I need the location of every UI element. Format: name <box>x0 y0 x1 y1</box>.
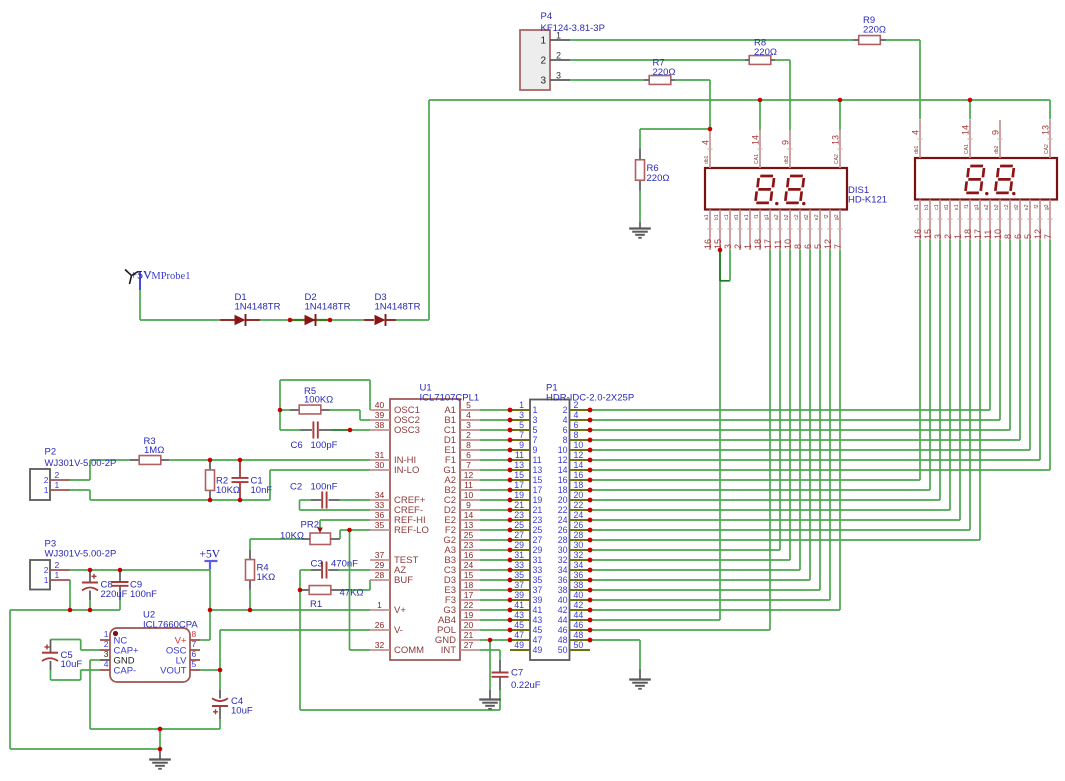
svg-text:HDR-IDC-2.0-2X25P: HDR-IDC-2.0-2X25P <box>546 393 634 404</box>
svg-text:29: 29 <box>514 540 524 550</box>
svg-text:20: 20 <box>574 490 584 500</box>
svg-text:14: 14 <box>961 125 971 135</box>
svg-text:c2: c2 <box>1004 204 1010 210</box>
svg-text:7: 7 <box>533 435 538 445</box>
svg-text:6: 6 <box>192 649 197 659</box>
svg-text:40: 40 <box>375 400 385 410</box>
svg-text:32: 32 <box>375 640 385 650</box>
svg-text:37: 37 <box>533 585 543 595</box>
svg-text:9: 9 <box>466 500 471 510</box>
svg-text:100nF: 100nF <box>130 589 157 600</box>
svg-text:a1: a1 <box>704 214 710 220</box>
svg-text:10uF: 10uF <box>231 706 253 717</box>
svg-text:16: 16 <box>574 470 584 480</box>
svg-text:49: 49 <box>514 640 524 650</box>
svg-text:10nF: 10nF <box>251 485 273 496</box>
svg-text:10uF: 10uF <box>61 659 83 670</box>
svg-text:43: 43 <box>533 615 543 625</box>
svg-text:g1: g1 <box>764 214 770 220</box>
svg-text:ICL7107CPL1: ICL7107CPL1 <box>420 393 480 404</box>
svg-text:27: 27 <box>533 535 543 545</box>
svg-text:1MΩ: 1MΩ <box>144 445 164 456</box>
svg-text:18: 18 <box>574 480 584 490</box>
svg-text:6: 6 <box>563 425 568 435</box>
svg-text:12: 12 <box>823 239 833 249</box>
svg-text:17: 17 <box>973 229 983 239</box>
svg-text:COMM: COMM <box>394 645 424 656</box>
svg-text:47: 47 <box>514 630 524 640</box>
svg-text:23: 23 <box>514 510 524 520</box>
svg-text:OSC3: OSC3 <box>394 425 420 436</box>
svg-text:21: 21 <box>533 505 543 515</box>
svg-text:4: 4 <box>104 659 109 669</box>
svg-text:21: 21 <box>464 630 474 640</box>
svg-text:23: 23 <box>464 540 474 550</box>
svg-text:10KΩ: 10KΩ <box>280 531 304 542</box>
svg-text:46: 46 <box>574 620 584 630</box>
svg-text:43: 43 <box>514 610 524 620</box>
svg-text:8: 8 <box>563 435 568 445</box>
svg-text:P2: P2 <box>45 447 57 458</box>
svg-text:44: 44 <box>574 610 584 620</box>
svg-text:38: 38 <box>375 420 385 430</box>
svg-text:12: 12 <box>558 455 568 465</box>
svg-text:47KΩ: 47KΩ <box>340 588 364 599</box>
svg-text:39: 39 <box>375 410 385 420</box>
svg-text:39: 39 <box>514 590 524 600</box>
svg-text:7: 7 <box>1043 234 1053 239</box>
svg-text:22: 22 <box>558 505 568 515</box>
svg-text:15: 15 <box>514 470 524 480</box>
svg-text:5: 5 <box>813 244 823 249</box>
svg-text:40: 40 <box>574 590 584 600</box>
svg-text:27: 27 <box>464 640 474 650</box>
svg-text:39: 39 <box>533 595 543 605</box>
svg-text:2: 2 <box>540 56 546 67</box>
svg-text:V+: V+ <box>394 605 406 616</box>
svg-text:3: 3 <box>556 71 561 81</box>
svg-text:22: 22 <box>464 600 474 610</box>
svg-text:7: 7 <box>519 430 524 440</box>
svg-text:24: 24 <box>558 515 568 525</box>
svg-text:1N4148TR: 1N4148TR <box>235 302 281 313</box>
svg-text:7: 7 <box>466 460 471 470</box>
svg-text:db2: db2 <box>994 145 1000 154</box>
svg-text:5: 5 <box>533 425 538 435</box>
svg-text:2: 2 <box>44 565 49 575</box>
svg-text:33: 33 <box>375 500 385 510</box>
svg-text:3: 3 <box>533 415 538 425</box>
svg-text:HD-K121: HD-K121 <box>848 195 887 206</box>
svg-text:WJ301V-5.00-2P: WJ301V-5.00-2P <box>45 549 117 560</box>
svg-text:KF124-3.81-3P: KF124-3.81-3P <box>541 23 605 34</box>
svg-text:10: 10 <box>993 229 1003 239</box>
svg-text:2: 2 <box>466 430 471 440</box>
svg-text:13: 13 <box>831 135 841 145</box>
svg-text:e2: e2 <box>814 214 820 220</box>
svg-text:g1: g1 <box>974 204 980 210</box>
svg-text:44: 44 <box>558 615 568 625</box>
svg-text:10: 10 <box>464 490 474 500</box>
svg-text:34: 34 <box>558 565 568 575</box>
svg-text:15: 15 <box>464 570 474 580</box>
svg-text:13: 13 <box>514 460 524 470</box>
svg-text:14: 14 <box>574 460 584 470</box>
svg-text:25: 25 <box>514 520 524 530</box>
svg-text:17: 17 <box>533 485 543 495</box>
svg-text:36: 36 <box>574 570 584 580</box>
svg-text:d1: d1 <box>944 204 950 210</box>
svg-text:220Ω: 220Ω <box>863 25 886 36</box>
svg-text:32: 32 <box>574 550 584 560</box>
svg-text:f2: f2 <box>824 214 830 218</box>
svg-text:b2: b2 <box>994 204 1000 210</box>
svg-text:db1: db1 <box>704 155 710 164</box>
svg-text:8: 8 <box>466 440 471 450</box>
svg-text:5: 5 <box>519 420 524 430</box>
svg-text:1: 1 <box>533 405 538 415</box>
svg-text:16: 16 <box>464 550 474 560</box>
svg-text:25: 25 <box>533 525 543 535</box>
svg-text:CA1: CA1 <box>964 144 970 154</box>
svg-text:50: 50 <box>574 640 584 650</box>
svg-text:19: 19 <box>514 490 524 500</box>
svg-text:220Ω: 220Ω <box>754 47 777 58</box>
svg-text:25: 25 <box>464 530 474 540</box>
svg-text:17: 17 <box>514 480 524 490</box>
svg-text:d2: d2 <box>804 214 810 220</box>
svg-text:36: 36 <box>375 510 385 520</box>
svg-text:40: 40 <box>558 595 568 605</box>
svg-text:33: 33 <box>533 565 543 575</box>
svg-text:29: 29 <box>533 545 543 555</box>
svg-text:1: 1 <box>44 485 49 495</box>
svg-text:23: 23 <box>533 515 543 525</box>
svg-text:41: 41 <box>533 605 543 615</box>
svg-text:2: 2 <box>943 234 953 239</box>
svg-text:4: 4 <box>466 410 471 420</box>
svg-text:3: 3 <box>519 410 524 420</box>
svg-text:26: 26 <box>574 520 584 530</box>
svg-text:1N4148TR: 1N4148TR <box>305 302 351 313</box>
svg-text:1: 1 <box>44 575 49 585</box>
svg-text:100nF: 100nF <box>311 482 338 493</box>
svg-text:16: 16 <box>558 475 568 485</box>
svg-text:15: 15 <box>923 229 933 239</box>
svg-text:10: 10 <box>574 440 584 450</box>
svg-text:3: 3 <box>933 234 943 239</box>
svg-text:24: 24 <box>464 560 474 570</box>
svg-text:27: 27 <box>514 530 524 540</box>
svg-text:e1: e1 <box>744 214 750 220</box>
svg-text:9: 9 <box>781 140 791 145</box>
svg-text:0.22uF: 0.22uF <box>511 680 541 691</box>
svg-text:17: 17 <box>763 239 773 249</box>
svg-text:6: 6 <box>574 420 579 430</box>
svg-text:100pF: 100pF <box>311 440 338 451</box>
svg-text:e1: e1 <box>954 204 960 210</box>
svg-text:8: 8 <box>793 244 803 249</box>
svg-text:5: 5 <box>192 659 197 669</box>
svg-text:30: 30 <box>574 540 584 550</box>
svg-text:1N4148TR: 1N4148TR <box>375 302 421 313</box>
svg-text:b1: b1 <box>714 214 720 220</box>
svg-text:g2: g2 <box>834 214 840 220</box>
svg-text:10: 10 <box>783 239 793 249</box>
svg-text:11: 11 <box>515 450 524 460</box>
svg-text:30: 30 <box>558 545 568 555</box>
svg-text:C2: C2 <box>290 482 302 493</box>
svg-text:35: 35 <box>375 520 385 530</box>
svg-text:d2: d2 <box>1014 204 1020 210</box>
svg-text:c2: c2 <box>794 214 800 220</box>
svg-text:a1: a1 <box>914 204 920 210</box>
svg-text:18: 18 <box>753 239 763 249</box>
svg-text:3: 3 <box>540 76 546 87</box>
svg-text:INT: INT <box>441 645 457 656</box>
svg-text:9: 9 <box>533 445 538 455</box>
svg-text:f2: f2 <box>1034 204 1040 208</box>
svg-text:b2: b2 <box>784 214 790 220</box>
svg-text:9: 9 <box>991 130 1001 135</box>
svg-text:PR2: PR2 <box>301 520 319 531</box>
svg-text:R1: R1 <box>310 599 322 610</box>
svg-text:31: 31 <box>533 555 543 565</box>
svg-text:4: 4 <box>563 415 568 425</box>
svg-text:9: 9 <box>519 440 524 450</box>
svg-text:13: 13 <box>533 465 543 475</box>
svg-text:+5V: +5V <box>200 549 221 561</box>
svg-text:37: 37 <box>375 550 385 560</box>
svg-text:1: 1 <box>55 570 60 580</box>
svg-text:REF-LO: REF-LO <box>394 525 429 536</box>
svg-text:29: 29 <box>375 560 385 570</box>
svg-text:21: 21 <box>514 500 524 510</box>
svg-text:37: 37 <box>514 580 524 590</box>
svg-text:C6: C6 <box>291 440 303 451</box>
svg-text:14: 14 <box>751 135 761 145</box>
svg-text:11: 11 <box>533 455 542 465</box>
svg-text:42: 42 <box>558 605 568 615</box>
svg-text:28: 28 <box>574 530 584 540</box>
svg-text:18: 18 <box>464 580 474 590</box>
svg-text:18: 18 <box>963 229 973 239</box>
svg-text:P4: P4 <box>541 11 553 22</box>
svg-text:CA2: CA2 <box>834 154 840 164</box>
svg-text:22: 22 <box>574 500 584 510</box>
svg-text:c1: c1 <box>934 204 940 210</box>
svg-text:36: 36 <box>558 575 568 585</box>
svg-text:45: 45 <box>514 620 524 630</box>
svg-text:11: 11 <box>983 230 993 239</box>
svg-text:2: 2 <box>563 405 568 415</box>
svg-text:31: 31 <box>375 450 385 460</box>
svg-text:1: 1 <box>953 234 963 239</box>
svg-text:1: 1 <box>104 629 109 639</box>
svg-text:31: 31 <box>514 550 524 560</box>
svg-text:f1: f1 <box>754 214 760 218</box>
svg-text:8: 8 <box>1003 234 1013 239</box>
svg-text:C7: C7 <box>511 668 523 679</box>
svg-text:35: 35 <box>533 575 543 585</box>
svg-text:4: 4 <box>574 410 579 420</box>
svg-text:6: 6 <box>1013 234 1023 239</box>
svg-text:12: 12 <box>574 450 584 460</box>
svg-text:1: 1 <box>55 480 60 490</box>
svg-text:db1: db1 <box>914 145 920 154</box>
svg-text:6: 6 <box>803 244 813 249</box>
svg-text:220Ω: 220Ω <box>653 67 676 78</box>
svg-text:1: 1 <box>540 36 546 47</box>
svg-text:a2: a2 <box>774 214 780 220</box>
svg-text:7: 7 <box>192 639 197 649</box>
svg-text:33: 33 <box>514 560 524 570</box>
svg-text:VOUT: VOUT <box>160 665 187 676</box>
svg-text:47: 47 <box>533 635 543 645</box>
svg-text:BUF: BUF <box>394 575 413 586</box>
svg-text:12: 12 <box>1033 229 1043 239</box>
svg-text:220uF: 220uF <box>101 589 128 600</box>
svg-text:16: 16 <box>913 229 923 239</box>
svg-text:d1: d1 <box>734 214 740 220</box>
svg-text:CAP-: CAP- <box>114 665 137 676</box>
svg-text:45: 45 <box>533 625 543 635</box>
svg-text:18: 18 <box>558 485 568 495</box>
svg-text:19: 19 <box>533 495 543 505</box>
svg-text:16: 16 <box>703 239 713 249</box>
svg-text:32: 32 <box>558 555 568 565</box>
svg-text:1: 1 <box>377 600 382 610</box>
svg-text:a2: a2 <box>984 204 990 210</box>
svg-text:ICL7660CPA: ICL7660CPA <box>143 620 198 631</box>
svg-text:10KΩ: 10KΩ <box>216 485 240 496</box>
svg-text:1: 1 <box>743 244 753 249</box>
svg-text:11: 11 <box>464 480 473 490</box>
svg-text:e2: e2 <box>1024 204 1030 210</box>
svg-text:11: 11 <box>773 240 783 249</box>
svg-text:13: 13 <box>464 520 474 530</box>
svg-text:14: 14 <box>464 510 474 520</box>
svg-text:100KΩ: 100KΩ <box>304 395 333 406</box>
svg-text:4: 4 <box>911 130 921 135</box>
svg-text:b1: b1 <box>924 204 930 210</box>
svg-text:2: 2 <box>733 244 743 249</box>
svg-text:49: 49 <box>533 645 543 655</box>
svg-text:CA2: CA2 <box>1044 144 1050 154</box>
svg-text:WJ301V-5.00-2P: WJ301V-5.00-2P <box>45 458 117 469</box>
svg-text:28: 28 <box>375 570 385 580</box>
svg-text:26: 26 <box>375 620 385 630</box>
svg-text:220Ω: 220Ω <box>647 173 670 184</box>
svg-text:12: 12 <box>464 470 474 480</box>
svg-text:6: 6 <box>466 450 471 460</box>
svg-text:470nF: 470nF <box>331 559 358 570</box>
svg-text:c1: c1 <box>724 214 730 220</box>
svg-text:30: 30 <box>375 460 385 470</box>
svg-text:2: 2 <box>55 470 60 480</box>
svg-text:35: 35 <box>514 570 524 580</box>
svg-text:2: 2 <box>55 560 60 570</box>
svg-text:db2: db2 <box>784 155 790 164</box>
svg-text:IN-LO: IN-LO <box>394 465 419 476</box>
svg-text:CA1: CA1 <box>754 154 760 164</box>
svg-text:28: 28 <box>558 535 568 545</box>
svg-text:V-: V- <box>394 625 403 636</box>
svg-text:34: 34 <box>375 490 385 500</box>
svg-text:41: 41 <box>514 600 524 610</box>
svg-text:3: 3 <box>723 244 733 249</box>
svg-text:10: 10 <box>558 445 568 455</box>
svg-text:2: 2 <box>104 639 109 649</box>
svg-text:38: 38 <box>574 580 584 590</box>
svg-text:34: 34 <box>574 560 584 570</box>
svg-text:f1: f1 <box>964 204 970 208</box>
svg-text:48: 48 <box>574 630 584 640</box>
svg-text:46: 46 <box>558 625 568 635</box>
svg-text:15: 15 <box>713 239 723 249</box>
svg-text:42: 42 <box>574 600 584 610</box>
svg-text:20: 20 <box>558 495 568 505</box>
svg-text:15: 15 <box>533 475 543 485</box>
svg-text:8: 8 <box>574 430 579 440</box>
svg-text:3: 3 <box>104 649 109 659</box>
svg-text:1KΩ: 1KΩ <box>257 572 276 583</box>
svg-text:14: 14 <box>558 465 568 475</box>
svg-text:g2: g2 <box>1044 204 1050 210</box>
svg-text:13: 13 <box>1041 125 1051 135</box>
svg-text:50: 50 <box>558 645 568 655</box>
svg-text:24: 24 <box>574 510 584 520</box>
svg-text:38: 38 <box>558 585 568 595</box>
svg-text:VMProbe1: VMProbe1 <box>144 271 191 282</box>
svg-text:7: 7 <box>833 244 843 249</box>
svg-text:4: 4 <box>701 140 711 145</box>
svg-text:17: 17 <box>464 590 474 600</box>
svg-text:C3: C3 <box>311 559 323 570</box>
svg-text:19: 19 <box>464 610 474 620</box>
svg-text:26: 26 <box>558 525 568 535</box>
svg-text:5: 5 <box>1023 234 1033 239</box>
svg-text:2: 2 <box>556 51 561 61</box>
svg-text:2: 2 <box>44 475 49 485</box>
svg-text:48: 48 <box>558 635 568 645</box>
svg-text:3: 3 <box>466 420 471 430</box>
svg-text:1: 1 <box>519 400 524 410</box>
svg-text:20: 20 <box>464 620 474 630</box>
